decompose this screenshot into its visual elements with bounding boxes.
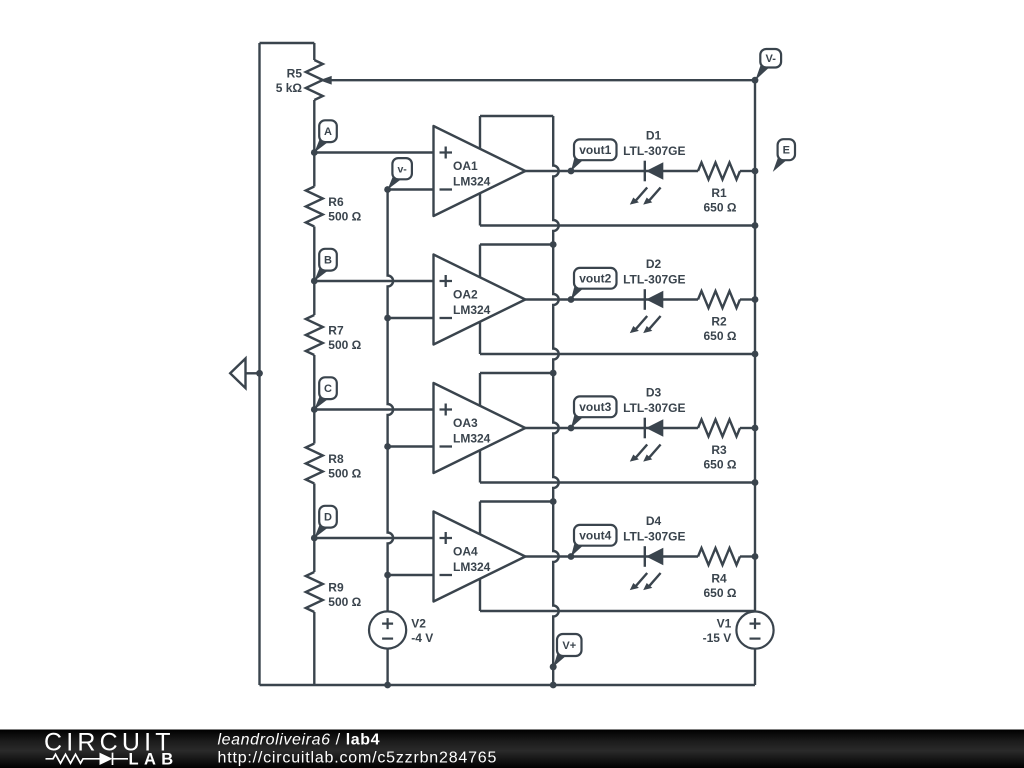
- CircuitLab logo squiggle (resistor + diode): [46, 753, 129, 765]
- svg-text:OA3: OA3: [453, 416, 478, 430]
- junction dot vout1: [568, 168, 575, 175]
- LED D4 (LTL-307GE): [630, 546, 664, 590]
- svg-text:LTL-307GE: LTL-307GE: [623, 401, 685, 415]
- junction dot node B: [311, 278, 318, 285]
- wire V+ rail: [553, 116, 559, 685]
- svg-text:V1: V1: [717, 617, 732, 631]
- junction dot v- rail row 4: [384, 572, 391, 579]
- wire bottom rail: [260, 684, 756, 686]
- voltage source V2 (-4 V): [369, 611, 406, 648]
- op-amp OA4 (LM324): [434, 512, 526, 602]
- junction dot V+ rail row 2: [550, 241, 557, 248]
- node flag V-: [755, 49, 781, 80]
- resistor R8 (500 ohm): [306, 410, 323, 539]
- label R6 value: [328, 195, 361, 224]
- svg-text:vout3: vout3: [579, 400, 611, 414]
- label D1 value: [623, 129, 685, 159]
- svg-text:R8: R8: [328, 452, 344, 466]
- label V2 value: [411, 617, 433, 646]
- svg-text:R1: R1: [711, 186, 727, 200]
- op-amp OA3 (LM324): [434, 383, 526, 473]
- resistor R9 (500 ohm): [306, 538, 323, 685]
- svg-text:v-: v-: [397, 163, 407, 175]
- wire OA4 power stubs: [479, 502, 481, 612]
- svg-text:vout2: vout2: [579, 272, 611, 286]
- svg-text:LM324: LM324: [453, 432, 491, 446]
- wire OA1 output: [525, 170, 698, 172]
- wire v- rail to OA4 - input: [388, 574, 434, 576]
- svg-text:LM324: LM324: [453, 560, 491, 574]
- svg-text:D2: D2: [646, 257, 662, 271]
- wire v- rail to OA2 - input: [388, 317, 434, 319]
- CircuitLab logo text LAB: [129, 751, 179, 768]
- svg-text:D3: D3: [646, 386, 662, 400]
- svg-text:vout1: vout1: [579, 143, 611, 157]
- resistor R2 (650 ohm): [698, 291, 755, 308]
- svg-text:-4 V: -4 V: [411, 631, 433, 645]
- svg-text:V2: V2: [411, 617, 426, 631]
- wire OA1 V- pin to right rail: [480, 224, 755, 226]
- wire v- rail to OA3 - input: [388, 445, 434, 447]
- op-amp OA1 (LM324): [434, 126, 526, 216]
- voltage source V1 (-15 V): [736, 612, 773, 649]
- input port arrow (left): [230, 359, 259, 389]
- node flag vout4: [571, 525, 617, 557]
- wire top segment: [260, 42, 315, 44]
- CircuitLab logo text CIRCUIT: [44, 729, 175, 757]
- node flag V+: [553, 634, 581, 667]
- svg-text:LTL-307GE: LTL-307GE: [623, 273, 685, 287]
- banner url text: [218, 750, 498, 767]
- svg-text:vout4: vout4: [579, 529, 611, 543]
- junction dot V+ rail row 3: [550, 370, 557, 377]
- svg-text:500 Ω: 500 Ω: [328, 467, 361, 481]
- svg-text:R7: R7: [328, 324, 344, 338]
- label D4 value: [623, 514, 685, 544]
- op-amp OA2 (LM324): [434, 255, 526, 345]
- junction dot right rail R3: [752, 425, 759, 432]
- wire node B to OA2 + input: [314, 280, 433, 282]
- node flag v-: [388, 158, 412, 189]
- junction dot V- flag: [752, 77, 759, 84]
- node flag vout3: [571, 396, 617, 428]
- svg-text:650 Ω: 650 Ω: [704, 201, 737, 215]
- label D3 value: [623, 386, 685, 416]
- label D2 value: [623, 257, 685, 287]
- wire node C to OA3 + input: [314, 408, 433, 410]
- LED D1 (LTL-307GE): [630, 161, 664, 205]
- junction dot node C: [311, 406, 318, 413]
- svg-text:D1: D1: [646, 129, 662, 143]
- wire OA2 V- pin to right rail: [480, 353, 755, 355]
- node flag D: [314, 506, 337, 538]
- node flag vout1: [571, 139, 617, 171]
- node flag B: [314, 249, 337, 281]
- svg-text:5 kΩ: 5 kΩ: [276, 81, 303, 95]
- junction dot v- rail row 3: [384, 443, 391, 450]
- svg-text:R2: R2: [711, 315, 727, 329]
- node flag vout2: [571, 268, 617, 300]
- LED D3 (LTL-307GE): [630, 418, 664, 462]
- resistor R3 (650 ohm): [698, 420, 755, 437]
- svg-text:500 Ω: 500 Ω: [328, 595, 361, 609]
- banner author/title text: [218, 731, 381, 748]
- svg-text:LM324: LM324: [453, 303, 491, 317]
- junction dot V+ rail bottom: [550, 682, 557, 689]
- wire OA1 power stubs: [479, 116, 481, 226]
- junction dot at input port: [256, 370, 263, 377]
- junction dot right rail OA1 V- wire: [752, 222, 759, 229]
- junction dot vout3: [568, 425, 575, 432]
- junction dot node D: [311, 535, 318, 542]
- label R9 value: [328, 581, 361, 610]
- node flag A: [314, 120, 337, 152]
- wire left rail: [258, 43, 260, 685]
- junction dot node A: [311, 149, 318, 156]
- wire OA3 output: [525, 427, 698, 429]
- wire OA3 V- pin to right rail: [480, 481, 755, 483]
- junction dot V+ flag: [550, 663, 557, 670]
- node flag C: [314, 377, 337, 409]
- wire OA4 V+ pin to V+ rail: [480, 500, 553, 502]
- svg-text:V-: V-: [765, 53, 776, 65]
- wire OA2 V+ pin to V+ rail: [480, 243, 553, 245]
- label R7 value: [328, 324, 361, 353]
- junction dot v- flag: [384, 186, 391, 193]
- resistor R1 (650 ohm): [698, 163, 755, 180]
- wire OA3 power stubs: [479, 373, 481, 483]
- svg-text:LTL-307GE: LTL-307GE: [623, 530, 685, 544]
- label V1 value: [703, 617, 732, 646]
- svg-text:650 Ω: 650 Ω: [704, 329, 737, 343]
- junction dot v- rail row 2: [384, 315, 391, 322]
- bottom banner bar: [0, 730, 1024, 768]
- resistor R6 (500 ohm): [306, 153, 323, 282]
- svg-text:LAB: LAB: [129, 751, 179, 768]
- wire OA2 power stubs: [479, 245, 481, 355]
- svg-text:D: D: [324, 512, 332, 524]
- svg-text:OA4: OA4: [453, 545, 478, 559]
- svg-text:D4: D4: [646, 514, 662, 528]
- svg-text:650 Ω: 650 Ω: [704, 458, 737, 472]
- svg-text:650 Ω: 650 Ω: [704, 586, 737, 600]
- junction dot right rail R2: [752, 296, 759, 303]
- resistor R5 (5 k potentiometer): [306, 43, 332, 153]
- junction dot vout4: [568, 553, 575, 560]
- wire OA2 output: [525, 298, 698, 300]
- label R4 value: [704, 572, 737, 601]
- label R3 value: [704, 443, 737, 472]
- svg-text:leandroliveira6 / lab4: leandroliveira6 / lab4: [218, 731, 381, 748]
- wire right rail (V- net): [754, 80, 756, 685]
- svg-text:R6: R6: [328, 195, 344, 209]
- node flag E: [773, 139, 795, 172]
- resistor R4 (650 ohm): [698, 548, 755, 565]
- junction dot right rail OA2 V- wire: [752, 351, 759, 358]
- label R8 value: [328, 452, 361, 481]
- svg-text:V+: V+: [562, 640, 576, 652]
- svg-text:500 Ω: 500 Ω: [328, 338, 361, 352]
- junction dot right rail R1: [752, 168, 759, 175]
- junction dot right rail OA3 V- wire: [752, 479, 759, 486]
- junction dot V+ rail row 4: [550, 498, 557, 505]
- wire OA3 V+ pin to V+ rail: [480, 372, 553, 374]
- label R2 value: [704, 315, 737, 344]
- junction dot V2 bottom: [384, 682, 391, 689]
- svg-text:C: C: [324, 383, 332, 395]
- svg-text:OA2: OA2: [453, 288, 478, 302]
- resistor R7 (500 ohm): [306, 281, 323, 410]
- label R1 value: [704, 186, 737, 215]
- svg-text:R5: R5: [287, 67, 303, 81]
- svg-text:R9: R9: [328, 581, 344, 595]
- wire v- rail to OA1 - input: [388, 188, 434, 190]
- LED D2 (LTL-307GE): [630, 289, 664, 333]
- svg-text:B: B: [324, 255, 332, 267]
- svg-text:R3: R3: [711, 443, 727, 457]
- junction dot vout2: [568, 296, 575, 303]
- svg-text:LM324: LM324: [453, 175, 491, 189]
- svg-text:-15 V: -15 V: [703, 631, 732, 645]
- junction dot right rail R4: [752, 553, 759, 560]
- svg-text:500 Ω: 500 Ω: [328, 210, 361, 224]
- label R5 value: [276, 67, 303, 96]
- wire node A to OA1 + input: [314, 151, 433, 153]
- svg-text:LTL-307GE: LTL-307GE: [623, 144, 685, 158]
- wire OA1 V+ pin to V+ rail: [480, 115, 553, 117]
- svg-text:E: E: [783, 145, 790, 157]
- wire OA4 V- pin to right rail: [480, 610, 755, 612]
- wire OA4 output: [525, 555, 698, 557]
- wire R5 wiper to right rail: [332, 79, 756, 81]
- svg-text:R4: R4: [711, 572, 727, 586]
- wire node D to OA4 + input: [314, 537, 433, 539]
- svg-text:OA1: OA1: [453, 159, 478, 173]
- svg-text:A: A: [324, 126, 332, 138]
- wire v- rail: [388, 190, 394, 686]
- svg-text:http://circuitlab.com/c5zzrbn2: http://circuitlab.com/c5zzrbn284765: [218, 750, 498, 767]
